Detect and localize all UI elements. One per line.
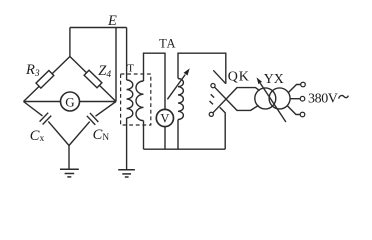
wire bridge bottom vertex to ground xyxy=(68,146,70,170)
capacitor CN xyxy=(87,113,99,125)
switch QK pole 2 contact circle xyxy=(209,112,213,116)
switch QK link tick 1 xyxy=(211,94,214,97)
svg-text:CN: CN xyxy=(93,127,110,143)
svg-text:R3: R3 xyxy=(25,62,40,79)
regulating transformer YX circle 2 xyxy=(269,88,290,109)
wire YX to terminal 2 xyxy=(290,98,300,100)
wire bus up to QK pole 2 blade xyxy=(220,107,226,149)
svg-text:E: E xyxy=(107,13,117,29)
wire TA top to switch QK input xyxy=(178,53,226,83)
YX adjust arrow xyxy=(257,77,286,122)
wire E bus down to bridge right vertex xyxy=(115,28,117,102)
wire YX to terminal 3 xyxy=(287,106,300,115)
voltmeter V xyxy=(156,109,173,126)
switch QK pole 1 contact circle xyxy=(211,84,215,88)
regulating transformer YX circle 1 xyxy=(255,88,276,109)
wire TA bottom to bus xyxy=(177,120,179,150)
transformer T dashed shield box xyxy=(121,74,151,125)
wire crossover QK pole2 to YX upper xyxy=(213,88,260,113)
wire galvanometer left xyxy=(24,101,61,103)
wire E bus corner down to transformer T primary top xyxy=(126,28,128,81)
wire crossover QK pole1 to YX lower xyxy=(215,87,259,110)
resistor R3 xyxy=(36,71,54,89)
wire T secondary top to voltmeter top xyxy=(144,53,166,109)
capacitor Cx xyxy=(40,113,52,125)
transformer T primary winding xyxy=(127,80,133,118)
bridge arm wire Cx (bottom-left) xyxy=(24,102,43,116)
bridge arm wire Z4 (top-right) xyxy=(70,57,116,102)
switch QK pole 1 blade (open) xyxy=(213,70,226,83)
svg-text:YX: YX xyxy=(264,71,284,86)
galvanometer G xyxy=(61,92,80,111)
svg-text:TA: TA xyxy=(159,36,176,50)
svg-text:Cx: Cx xyxy=(30,128,45,144)
bottom bus wire xyxy=(144,148,226,150)
wire voltmeter bottom to bus xyxy=(164,127,166,150)
tilde of 380V~ xyxy=(339,95,349,98)
svg-text:G: G xyxy=(65,94,74,109)
wire T primary bottom to ground xyxy=(126,118,128,170)
wire top bus from bridge top to T primary xyxy=(70,27,127,29)
ground (transformer T) xyxy=(118,170,135,177)
terminal circle 1 xyxy=(301,82,306,87)
impedance Z4 xyxy=(84,70,102,88)
ground (bridge) xyxy=(60,169,79,177)
bridge arm wire CN (bottom-right) xyxy=(96,102,117,117)
transformer T secondary winding xyxy=(136,81,144,121)
TA wiper arrow xyxy=(167,68,189,99)
wire galvanometer right xyxy=(80,101,117,103)
svg-text:V: V xyxy=(160,112,169,126)
terminal circle 2 xyxy=(300,96,305,101)
svg-text:380V: 380V xyxy=(308,91,338,106)
autotransformer TA winding xyxy=(178,79,183,120)
wire stub E bus down to bridge top vertex xyxy=(69,28,71,57)
terminal circle 3 xyxy=(300,112,305,117)
svg-text:T: T xyxy=(127,62,134,74)
svg-text:Z4: Z4 xyxy=(98,63,111,80)
wire T secondary bottom to bus xyxy=(143,121,145,150)
svg-text:QK: QK xyxy=(228,70,250,85)
bridge arm wire R3 (top-left) xyxy=(24,57,70,102)
wire YX to terminal 1 xyxy=(288,85,301,93)
switch QK link tick 2 xyxy=(210,101,214,104)
